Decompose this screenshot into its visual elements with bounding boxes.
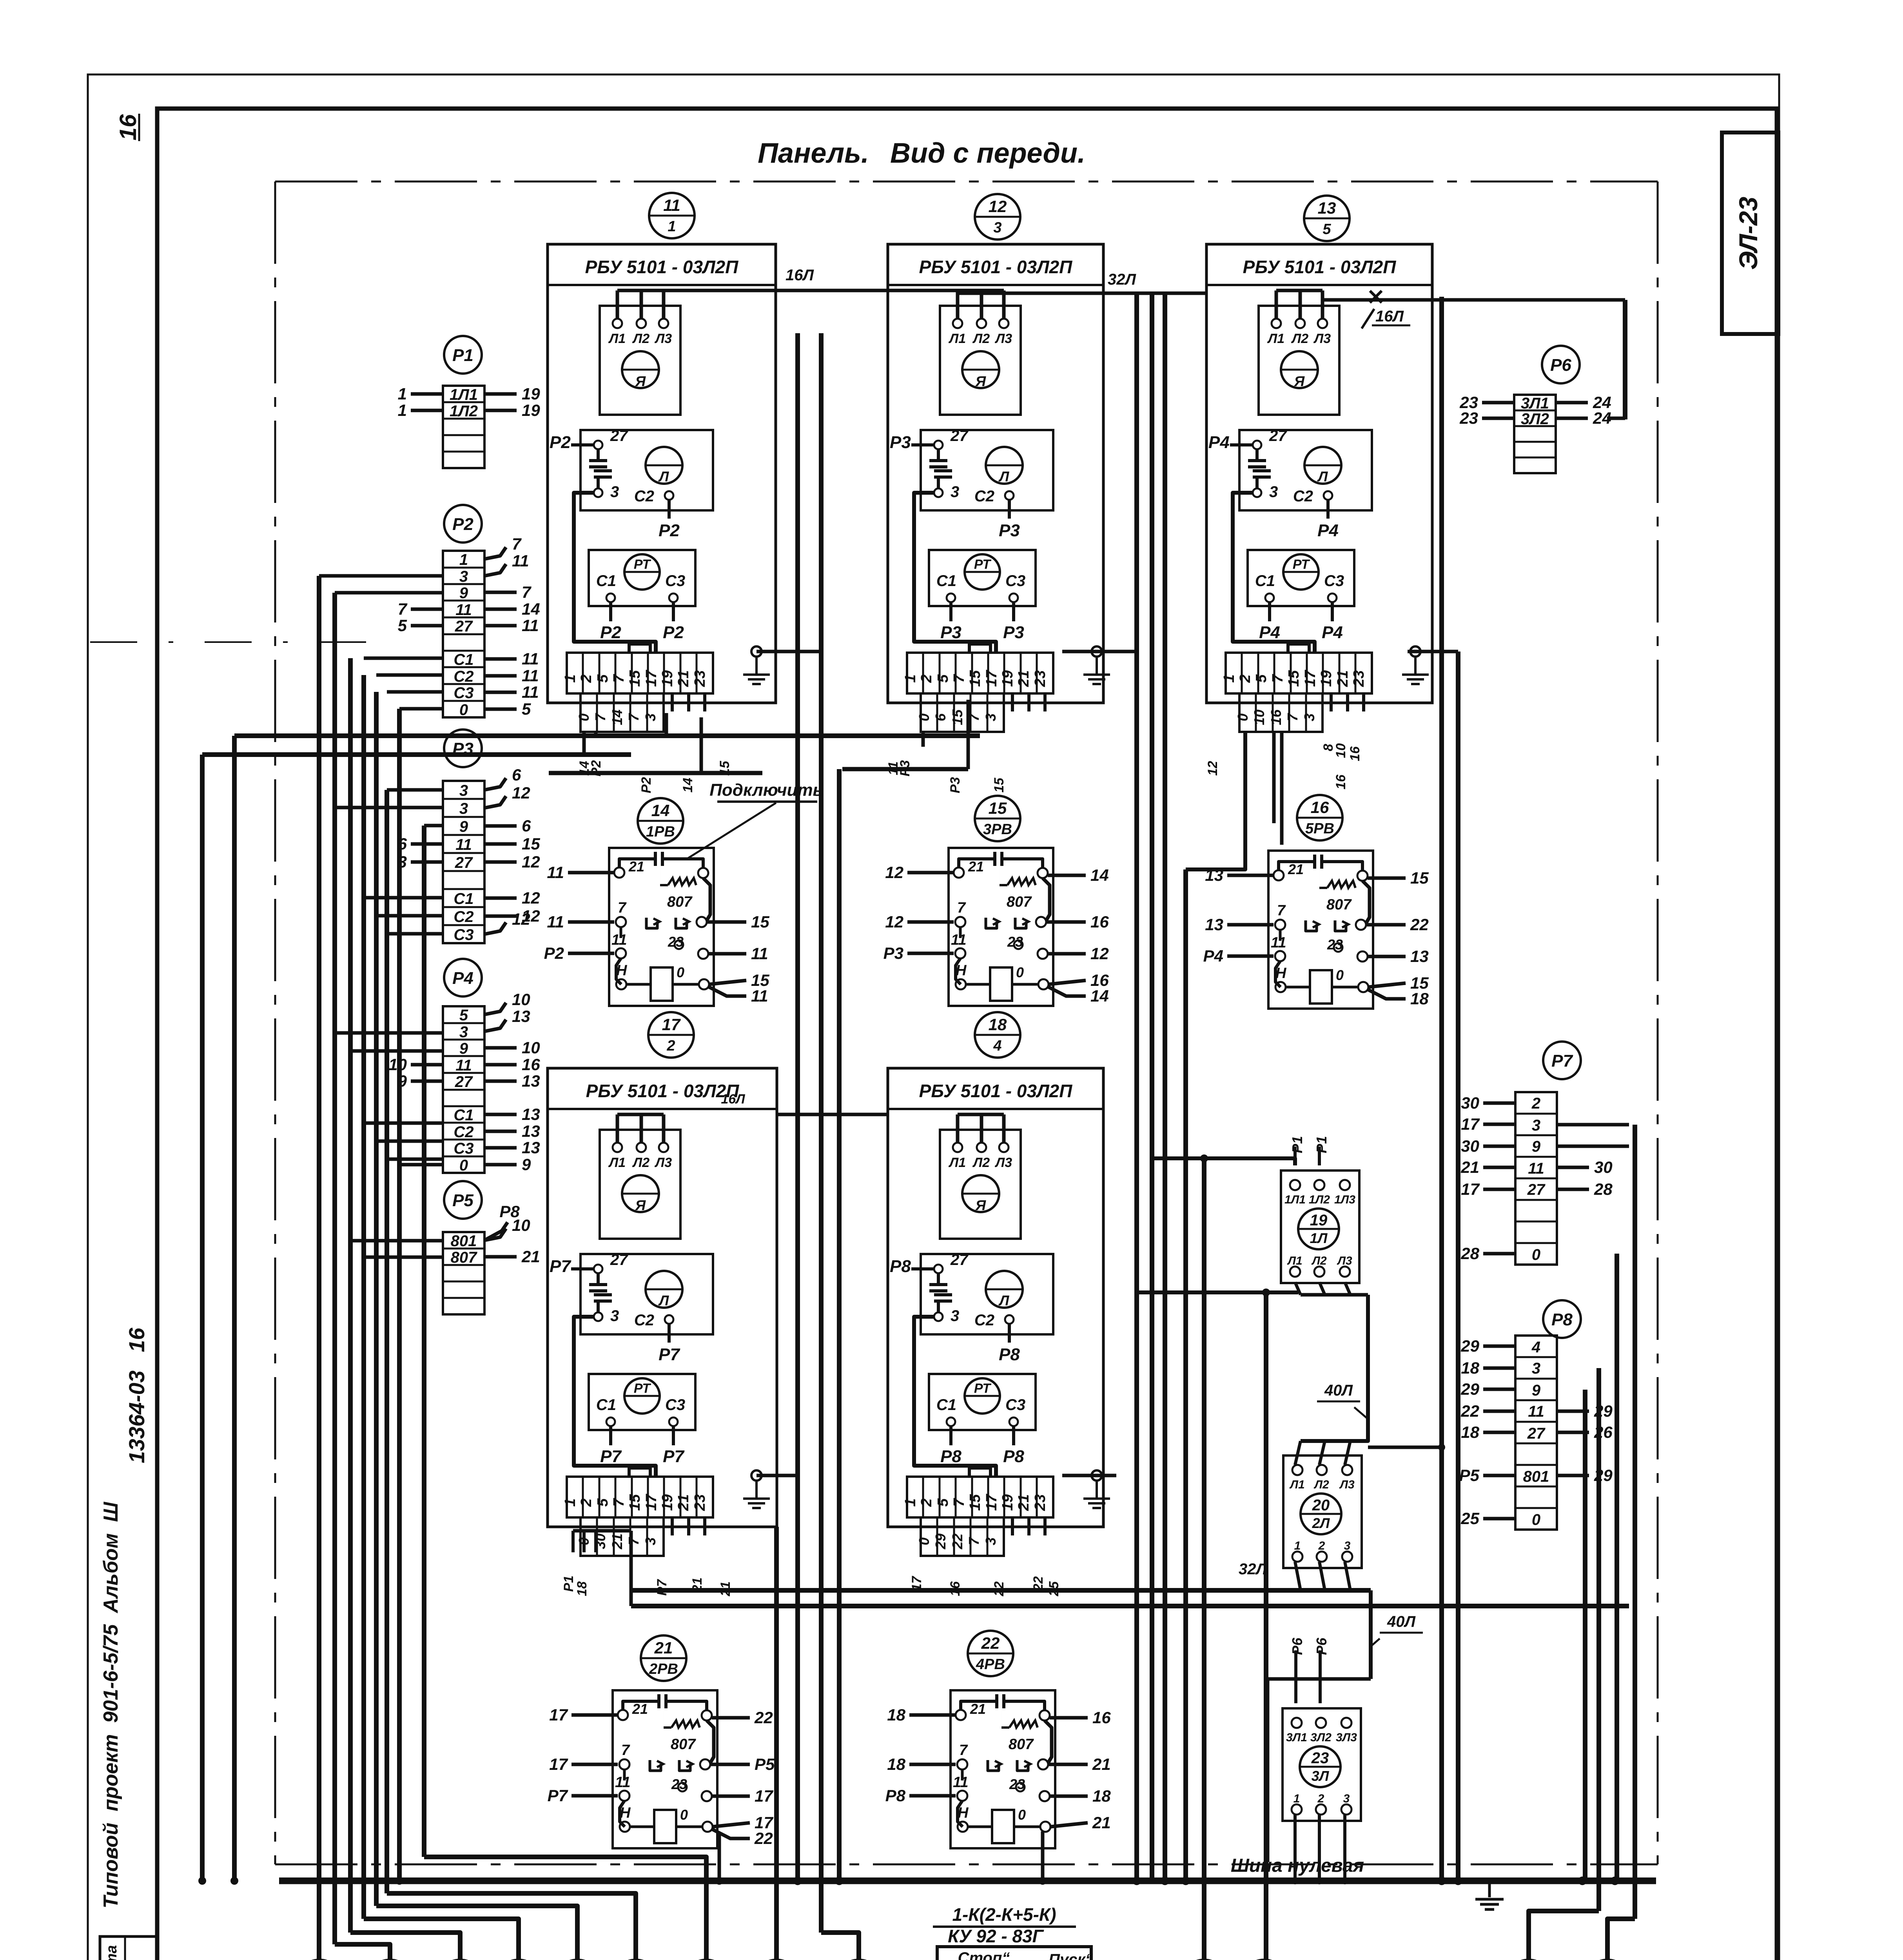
svg-text:С3: С3 (665, 1396, 685, 1414)
svg-text:Л: Л (658, 468, 669, 485)
svg-text:5: 5 (398, 616, 407, 635)
svg-text:12: 12 (989, 197, 1007, 216)
svg-text:Р8: Р8 (890, 1257, 911, 1276)
svg-text:1Л: 1Л (1310, 1230, 1328, 1246)
svg-text:9: 9 (522, 1155, 531, 1174)
svg-text:11: 11 (615, 1774, 630, 1791)
svg-text:17: 17 (755, 1787, 773, 1805)
svg-text:С2: С2 (1293, 488, 1313, 505)
svg-text:17: 17 (549, 1755, 568, 1773)
svg-text:13: 13 (1205, 915, 1223, 934)
svg-text:Л: Л (998, 1292, 1010, 1308)
svg-text:С2: С2 (974, 488, 994, 505)
svg-text:11: 11 (663, 196, 680, 214)
svg-text:Р4: Р4 (1203, 947, 1223, 965)
svg-text:Р4: Р4 (1322, 623, 1343, 642)
svg-text:18: 18 (1092, 1787, 1111, 1805)
svg-text:1Л2: 1Л2 (450, 403, 478, 420)
svg-text:9: 9 (1532, 1382, 1541, 1399)
svg-text:Р2: Р2 (589, 760, 604, 777)
svg-text:РБУ 5101 - 03Л2П: РБУ 5101 - 03Л2П (919, 1081, 1073, 1101)
svg-text:Л2: Л2 (632, 1155, 649, 1170)
svg-text:0: 0 (1336, 967, 1344, 983)
svg-text:2: 2 (1531, 1095, 1540, 1112)
svg-text:С1: С1 (936, 1396, 956, 1414)
svg-text:Р2: Р2 (639, 777, 654, 793)
svg-text:5: 5 (459, 1007, 468, 1024)
svg-text:1-К(2-К+5-К): 1-К(2-К+5-К) (952, 1904, 1056, 1925)
svg-text:7: 7 (959, 1742, 968, 1759)
svg-text:27: 27 (1269, 427, 1287, 445)
svg-text:18: 18 (887, 1706, 905, 1724)
svg-text:30: 30 (1461, 1137, 1479, 1155)
svg-text:11: 11 (455, 836, 472, 853)
svg-text:11: 11 (455, 601, 472, 619)
svg-text:12: 12 (1205, 761, 1220, 776)
svg-text:3Л: 3Л (1312, 1768, 1330, 1784)
svg-text:27: 27 (455, 618, 473, 635)
svg-text:3: 3 (610, 1307, 619, 1325)
svg-text:2: 2 (666, 1038, 675, 1054)
svg-text:30: 30 (1594, 1158, 1613, 1176)
svg-text:Р7: Р7 (659, 1345, 680, 1364)
svg-text:7: 7 (522, 583, 532, 601)
svg-text:6: 6 (522, 817, 531, 835)
svg-text:Я: Я (635, 373, 646, 389)
svg-text:4: 4 (1531, 1339, 1540, 1356)
svg-text:19: 19 (1310, 1212, 1328, 1229)
svg-text:5: 5 (935, 674, 951, 683)
svg-text:10: 10 (1333, 743, 1348, 758)
svg-text:0: 0 (680, 1807, 688, 1823)
svg-text:Р7: Р7 (548, 1786, 568, 1805)
svg-text:4РВ: 4РВ (976, 1656, 1005, 1673)
svg-text:С3: С3 (454, 1140, 473, 1157)
svg-text:3: 3 (983, 1537, 999, 1545)
svg-text:19: 19 (1000, 1494, 1016, 1511)
svg-text:27: 27 (950, 427, 969, 445)
svg-text:21: 21 (654, 1639, 673, 1657)
svg-text:19: 19 (522, 385, 540, 403)
svg-text:Л1: Л1 (1289, 1478, 1304, 1491)
svg-text:Р7: Р7 (550, 1257, 571, 1276)
svg-text:1: 1 (902, 674, 919, 682)
svg-text:16: 16 (1311, 798, 1329, 817)
svg-text:2: 2 (918, 1498, 935, 1507)
svg-text:7: 7 (951, 1498, 967, 1507)
svg-text:16: 16 (1333, 774, 1348, 789)
svg-text:11: 11 (522, 683, 539, 701)
svg-text:0: 0 (1235, 713, 1251, 721)
svg-text:Р7: Р7 (655, 1579, 669, 1596)
svg-text:0: 0 (576, 713, 592, 721)
svg-text:0: 0 (459, 701, 468, 719)
svg-text:7: 7 (966, 1537, 982, 1545)
svg-text:12: 12 (512, 910, 530, 928)
svg-text:21: 21 (675, 1494, 692, 1511)
svg-text:3: 3 (1301, 713, 1317, 721)
svg-text:1РВ: 1РВ (646, 824, 675, 840)
svg-text:Типовой проект 901-6-5/75 А: Типовой проект 901-6-5/75 Альбом Ш (100, 1502, 122, 1909)
svg-text:7: 7 (626, 713, 642, 721)
svg-text:Л: Л (658, 1292, 669, 1308)
svg-text:С3: С3 (665, 572, 685, 590)
svg-text:Л2: Л2 (632, 331, 649, 346)
svg-text:Подпись и дата: Подпись и дата (103, 1945, 120, 1960)
svg-text:Р6: Р6 (1313, 1637, 1330, 1655)
svg-text:27: 27 (950, 1251, 969, 1269)
svg-text:3: 3 (1532, 1360, 1540, 1377)
svg-text:11: 11 (951, 932, 966, 948)
svg-text:11: 11 (751, 944, 768, 963)
svg-text:Р8: Р8 (1003, 1447, 1024, 1466)
svg-text:Л3: Л3 (1313, 331, 1331, 346)
svg-text:14: 14 (522, 600, 540, 618)
svg-text:11: 11 (1271, 935, 1286, 951)
svg-text:11: 11 (611, 932, 627, 948)
svg-text:7: 7 (1277, 902, 1286, 919)
svg-text:9: 9 (459, 1040, 468, 1057)
svg-text:15: 15 (967, 670, 983, 687)
svg-text:Р3: Р3 (948, 777, 963, 793)
svg-text:3Л2: 3Л2 (1521, 410, 1549, 428)
svg-text:27: 27 (610, 1251, 628, 1269)
svg-text:11: 11 (547, 863, 564, 882)
svg-text:25: 25 (1460, 1509, 1479, 1528)
svg-text:14: 14 (651, 801, 670, 820)
svg-text:11: 11 (751, 987, 768, 1005)
svg-text:Р4: Р4 (452, 969, 473, 988)
svg-text:11: 11 (1528, 1160, 1544, 1177)
svg-text:21: 21 (1016, 1494, 1032, 1511)
svg-text:13: 13 (522, 1138, 540, 1157)
svg-text:11: 11 (522, 650, 539, 668)
svg-text:10: 10 (522, 1038, 540, 1057)
svg-text:15: 15 (522, 835, 540, 853)
svg-text:С1: С1 (936, 572, 956, 590)
svg-text:5: 5 (1253, 674, 1270, 683)
svg-text:3: 3 (983, 713, 999, 721)
svg-text:5РВ: 5РВ (1305, 820, 1334, 837)
svg-text:Л2: Л2 (972, 331, 990, 346)
svg-text:17: 17 (662, 1015, 681, 1034)
svg-text:„Стоп“: „Стоп“ (950, 1949, 1010, 1960)
svg-text:11: 11 (512, 552, 529, 570)
svg-text:РТ: РТ (634, 1381, 651, 1396)
svg-text:27: 27 (1527, 1425, 1546, 1442)
svg-text:С2: С2 (454, 908, 473, 926)
svg-text:0: 0 (677, 964, 684, 980)
svg-text:21: 21 (609, 1534, 625, 1550)
svg-text:2Л: 2Л (1312, 1515, 1330, 1531)
svg-text:11: 11 (522, 666, 539, 685)
svg-text:7: 7 (611, 1498, 627, 1507)
svg-text:17: 17 (1461, 1180, 1480, 1198)
svg-text:15: 15 (627, 1494, 643, 1511)
svg-text:0: 0 (1532, 1511, 1540, 1528)
svg-text:28: 28 (1594, 1180, 1613, 1198)
svg-text:3Л1: 3Л1 (1286, 1731, 1307, 1744)
svg-text:С1: С1 (596, 1396, 616, 1414)
svg-text:23: 23 (1459, 409, 1478, 427)
svg-text:16: 16 (115, 114, 141, 140)
svg-text:Р2: Р2 (550, 433, 571, 452)
svg-text:С2: С2 (634, 488, 654, 505)
svg-text:12: 12 (512, 784, 530, 802)
svg-text:29: 29 (1460, 1337, 1479, 1355)
svg-text:Р8: Р8 (499, 1202, 520, 1221)
svg-text:Л: Л (1317, 468, 1328, 485)
svg-text:Р7: Р7 (600, 1447, 622, 1466)
svg-text:1Л1: 1Л1 (1284, 1193, 1306, 1206)
svg-text:1Л3: 1Л3 (1334, 1193, 1355, 1206)
svg-text:15: 15 (949, 709, 965, 725)
svg-text:1: 1 (902, 1498, 919, 1506)
svg-text:РБУ 5101 - 03Л2П: РБУ 5101 - 03Л2П (919, 257, 1073, 277)
svg-text:С3: С3 (1324, 572, 1344, 590)
svg-text:Л3: Л3 (994, 331, 1012, 346)
svg-text:Я: Я (635, 1197, 646, 1213)
svg-text:Р2: Р2 (600, 623, 621, 642)
svg-text:27: 27 (455, 1073, 473, 1091)
svg-text:21: 21 (970, 1701, 986, 1717)
svg-text:Р8: Р8 (999, 1345, 1020, 1364)
svg-text:3: 3 (951, 1307, 959, 1325)
svg-text:29: 29 (932, 1534, 949, 1550)
svg-text:3: 3 (993, 220, 1001, 236)
svg-text:2: 2 (1317, 1792, 1324, 1805)
svg-text:Панель.: Панель. (758, 138, 869, 169)
svg-text:15: 15 (627, 670, 643, 687)
svg-text:Р4: Р4 (1259, 623, 1280, 642)
svg-text:17: 17 (1302, 670, 1319, 687)
svg-text:Р6: Р6 (1550, 356, 1571, 375)
svg-text:Р3: Р3 (898, 760, 912, 777)
svg-text:11: 11 (547, 913, 564, 931)
svg-text:807: 807 (451, 1249, 477, 1266)
svg-text:0: 0 (916, 713, 932, 721)
svg-text:Р8: Р8 (940, 1447, 961, 1466)
svg-text:3: 3 (951, 483, 959, 501)
svg-text:РТ: РТ (974, 557, 992, 572)
svg-text:7: 7 (957, 900, 966, 916)
svg-text:21: 21 (675, 670, 692, 687)
svg-text:1: 1 (562, 674, 579, 682)
svg-text:Л1: Л1 (608, 331, 626, 346)
svg-text:Р3: Р3 (1003, 623, 1024, 642)
svg-text:3Л1: 3Л1 (1521, 395, 1549, 412)
svg-text:15: 15 (751, 913, 769, 931)
svg-text:Р5: Р5 (452, 1191, 473, 1210)
svg-text:1: 1 (562, 1498, 579, 1506)
svg-text:5: 5 (1322, 221, 1331, 238)
svg-text:16: 16 (1348, 746, 1362, 761)
svg-text:Р7: Р7 (663, 1447, 685, 1466)
svg-text:7: 7 (626, 1537, 642, 1545)
svg-text:6: 6 (512, 766, 521, 784)
svg-text:807: 807 (1326, 897, 1352, 913)
svg-text:32Л: 32Л (1239, 1561, 1267, 1578)
svg-text:3: 3 (642, 1537, 659, 1545)
svg-text:С3: С3 (454, 684, 473, 702)
svg-text:17: 17 (643, 1494, 660, 1511)
svg-text:С3: С3 (454, 926, 473, 944)
svg-text:18: 18 (887, 1755, 905, 1773)
svg-text:5: 5 (935, 1498, 951, 1507)
svg-text:7: 7 (1270, 674, 1286, 683)
svg-text:РТ: РТ (1293, 557, 1310, 572)
svg-text:21: 21 (1092, 1755, 1111, 1773)
svg-text:15: 15 (989, 799, 1007, 817)
svg-text:3: 3 (642, 713, 659, 721)
svg-text:11: 11 (455, 1057, 472, 1074)
svg-text:5: 5 (522, 700, 531, 718)
svg-text:28: 28 (1460, 1244, 1479, 1263)
svg-text:13: 13 (522, 1105, 540, 1123)
svg-text:1Л2: 1Л2 (1309, 1193, 1330, 1206)
svg-text:22: 22 (981, 1634, 1000, 1652)
svg-text:Р5: Р5 (1459, 1466, 1480, 1485)
svg-text:21: 21 (632, 1701, 648, 1717)
svg-text:13: 13 (512, 1007, 530, 1025)
svg-text:3: 3 (459, 800, 468, 817)
svg-text:С2: С2 (974, 1312, 994, 1329)
svg-text:9: 9 (459, 584, 468, 602)
svg-text:22: 22 (1410, 915, 1429, 934)
svg-text:21: 21 (1335, 670, 1351, 687)
svg-text:22: 22 (1460, 1402, 1479, 1420)
svg-text:Л1: Л1 (1267, 331, 1284, 346)
svg-text:3: 3 (1532, 1117, 1540, 1134)
svg-text:19: 19 (1318, 670, 1335, 687)
svg-text:807: 807 (1009, 1736, 1034, 1753)
svg-text:РБУ 5101 - 03Л2П: РБУ 5101 - 03Л2П (1243, 257, 1397, 277)
svg-text:9: 9 (1532, 1138, 1541, 1155)
svg-text:„Пуск“: „Пуск“ (1040, 1951, 1093, 1960)
svg-text:801: 801 (1523, 1468, 1549, 1485)
svg-text:ЭЛ-23: ЭЛ-23 (1734, 197, 1763, 270)
svg-text:22: 22 (1031, 1576, 1046, 1592)
svg-text:16: 16 (1090, 913, 1109, 931)
svg-text:15: 15 (1410, 869, 1429, 887)
svg-text:Л1: Л1 (608, 1155, 626, 1170)
svg-text:Л1: Л1 (948, 1155, 966, 1170)
svg-text:Л3: Л3 (654, 1155, 672, 1170)
svg-text:18: 18 (1410, 989, 1429, 1008)
svg-text:РБУ 5101 - 03Л2П: РБУ 5101 - 03Л2П (586, 1081, 740, 1101)
svg-text:Л2: Л2 (1313, 1478, 1329, 1491)
svg-text:2: 2 (578, 674, 595, 683)
svg-text:15: 15 (1286, 670, 1302, 687)
svg-text:17: 17 (983, 1494, 1000, 1511)
svg-text:3: 3 (459, 1024, 468, 1041)
svg-text:Л2: Л2 (1291, 331, 1308, 346)
svg-text:5: 5 (595, 1498, 611, 1507)
svg-text:Р5: Р5 (755, 1755, 775, 1773)
svg-text:С3: С3 (1005, 1396, 1025, 1414)
svg-text:Л3: Л3 (994, 1155, 1012, 1170)
svg-text:13364-03 16: 13364-03 16 (124, 1327, 149, 1463)
svg-text:С1: С1 (1255, 572, 1275, 590)
svg-text:22: 22 (754, 1708, 773, 1727)
svg-text:Р1: Р1 (561, 1575, 576, 1592)
svg-text:Р4: Р4 (1317, 521, 1339, 540)
svg-text:Л1: Л1 (1287, 1254, 1302, 1267)
svg-text:Р2: Р2 (544, 944, 564, 962)
svg-text:Р3: Р3 (883, 944, 903, 962)
svg-text:0: 0 (459, 1157, 468, 1174)
svg-text:7: 7 (618, 900, 627, 916)
svg-text:Р3: Р3 (890, 433, 911, 452)
svg-text:Р8: Р8 (885, 1786, 906, 1805)
svg-text:7: 7 (951, 674, 967, 683)
svg-text:17: 17 (643, 670, 660, 687)
svg-text:Л1: Л1 (948, 331, 966, 346)
svg-text:Л3: Л3 (1337, 1254, 1352, 1267)
svg-text:РТ: РТ (974, 1381, 992, 1396)
svg-text:17: 17 (1461, 1115, 1480, 1133)
svg-text:3Л2: 3Л2 (1310, 1731, 1332, 1744)
svg-text:Р2: Р2 (659, 521, 680, 540)
svg-text:19: 19 (522, 401, 540, 419)
svg-text:15: 15 (992, 777, 1007, 793)
svg-text:0: 0 (916, 1537, 932, 1545)
svg-text:1: 1 (1294, 1539, 1301, 1552)
svg-text:21: 21 (1016, 670, 1032, 687)
svg-text:11: 11 (1528, 1403, 1544, 1420)
svg-text:1: 1 (668, 218, 676, 235)
svg-text:1: 1 (398, 401, 407, 419)
svg-text:Р6: Р6 (1289, 1637, 1305, 1655)
svg-text:3: 3 (459, 568, 468, 585)
svg-text:Л3: Л3 (1339, 1478, 1355, 1491)
svg-text:22: 22 (754, 1829, 773, 1847)
svg-text:0: 0 (1018, 1807, 1026, 1823)
svg-text:РТ: РТ (634, 557, 651, 572)
svg-text:16Л: 16Л (721, 1092, 745, 1107)
svg-text:1: 1 (1221, 674, 1237, 682)
svg-text:3: 3 (459, 782, 468, 799)
svg-text:16Л: 16Л (786, 267, 814, 284)
svg-text:Р2: Р2 (663, 623, 684, 642)
svg-text:17: 17 (983, 670, 1000, 687)
svg-text:2РВ: 2РВ (649, 1661, 678, 1677)
svg-text:18: 18 (1461, 1359, 1479, 1377)
svg-text:14: 14 (609, 710, 625, 725)
svg-text:21: 21 (718, 1581, 733, 1597)
svg-text:16: 16 (522, 1055, 540, 1074)
svg-text:2: 2 (1318, 1539, 1325, 1552)
svg-text:12: 12 (522, 889, 540, 907)
svg-text:7: 7 (398, 600, 408, 618)
svg-text:11: 11 (522, 616, 539, 635)
svg-text:27: 27 (1527, 1181, 1546, 1198)
svg-text:807: 807 (1007, 894, 1032, 910)
svg-text:14: 14 (1090, 987, 1109, 1005)
svg-text:1Л1: 1Л1 (450, 386, 478, 403)
svg-text:21: 21 (1092, 1813, 1111, 1832)
svg-text:23: 23 (1351, 670, 1367, 687)
svg-text:Р3: Р3 (940, 623, 961, 642)
svg-text:3: 3 (1343, 1792, 1350, 1805)
svg-text:Р1: Р1 (1289, 1136, 1305, 1153)
svg-text:4: 4 (993, 1038, 1001, 1054)
svg-text:7: 7 (592, 713, 608, 721)
svg-text:12: 12 (1090, 944, 1109, 963)
svg-text:21: 21 (1460, 1158, 1479, 1176)
svg-text:10: 10 (512, 990, 530, 1009)
svg-text:2: 2 (578, 1498, 595, 1507)
